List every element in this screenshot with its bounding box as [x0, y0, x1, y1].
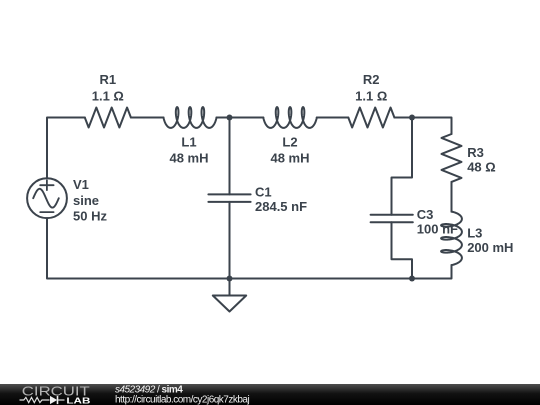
capacitor C3	[371, 215, 413, 222]
wire node B to node D bottom rail	[230, 278, 413, 280]
wire node A to L2	[230, 117, 264, 119]
svg-text:V1: V1	[73, 177, 89, 192]
svg-text:284.5 nF: 284.5 nF	[255, 199, 307, 214]
inductor L1	[164, 107, 217, 128]
footer bar	[0, 384, 540, 405]
label C1 value	[255, 185, 307, 215]
resistor R1	[85, 108, 131, 128]
resistor R2	[348, 108, 394, 128]
svg-text:100 nF: 100 nF	[417, 222, 458, 237]
wire top-left: V1 top to R1	[47, 118, 85, 179]
svg-text:L1: L1	[181, 135, 196, 150]
V1 plus sign	[40, 180, 53, 190]
svg-text:48 Ω: 48 Ω	[467, 160, 496, 175]
wire node B to R3 branch top	[412, 118, 452, 135]
wire R3 to L3	[451, 182, 453, 212]
svg-text:sine: sine	[73, 193, 99, 208]
svg-text:R2: R2	[363, 72, 380, 87]
footer logo diode	[50, 396, 65, 404]
wire C1 bottom stub	[229, 202, 231, 279]
footer logo resistor zigzag	[20, 397, 50, 402]
capacitor C1	[208, 194, 250, 202]
V1 sine waveform	[33, 189, 59, 208]
node C junction dot (ground)	[227, 276, 233, 282]
wire L2 to R2	[317, 117, 349, 119]
label R1 value	[92, 72, 124, 104]
svg-text:C1: C1	[255, 185, 272, 200]
label R2 value	[355, 72, 387, 104]
label L2 value	[270, 135, 309, 166]
wire C1 top stub	[229, 118, 231, 195]
V1 minus sign	[40, 211, 53, 213]
node D junction dot	[409, 276, 415, 282]
svg-text:C3: C3	[417, 207, 434, 222]
svg-text:48 mH: 48 mH	[270, 150, 309, 165]
ground stub	[229, 279, 231, 296]
svg-text:1.1 Ω: 1.1 Ω	[355, 89, 387, 104]
inductor L3	[441, 212, 462, 266]
wire bottom-left: rail to V1	[47, 218, 230, 278]
label L1 value	[169, 135, 208, 166]
wire C3 top stub	[392, 118, 413, 215]
node B junction dot	[409, 115, 415, 121]
svg-text:R1: R1	[99, 72, 116, 87]
wire L3 to bottom rail	[412, 265, 452, 278]
label L3 value	[467, 225, 513, 255]
node A junction dot	[227, 115, 233, 121]
wire C3 bottom stub	[392, 222, 413, 278]
svg-text:50 Hz: 50 Hz	[73, 209, 107, 224]
svg-text:200 mH: 200 mH	[467, 240, 513, 255]
svg-text:R3: R3	[467, 145, 484, 160]
label C3 value	[417, 207, 458, 237]
wire R2 to node B	[394, 117, 412, 119]
ground symbol	[213, 296, 246, 312]
svg-text:48 mH: 48 mH	[169, 150, 208, 165]
wire R1 to L1	[131, 117, 164, 119]
label V1 value	[73, 177, 107, 224]
svg-text:1.1 Ω: 1.1 Ω	[92, 89, 124, 104]
voltage source V1 circle	[27, 178, 67, 218]
svg-text:L3: L3	[467, 225, 482, 240]
svg-text:http://circuitlab.com/cy2j6qk7: http://circuitlab.com/cy2j6qk7zkbaj	[115, 394, 250, 405]
label R3 value	[467, 145, 496, 175]
wire L1 to node A	[217, 117, 230, 119]
inductor L2	[263, 107, 317, 128]
resistor R3	[442, 134, 462, 182]
svg-text:LAB: LAB	[66, 396, 90, 405]
svg-text:L2: L2	[282, 135, 297, 150]
